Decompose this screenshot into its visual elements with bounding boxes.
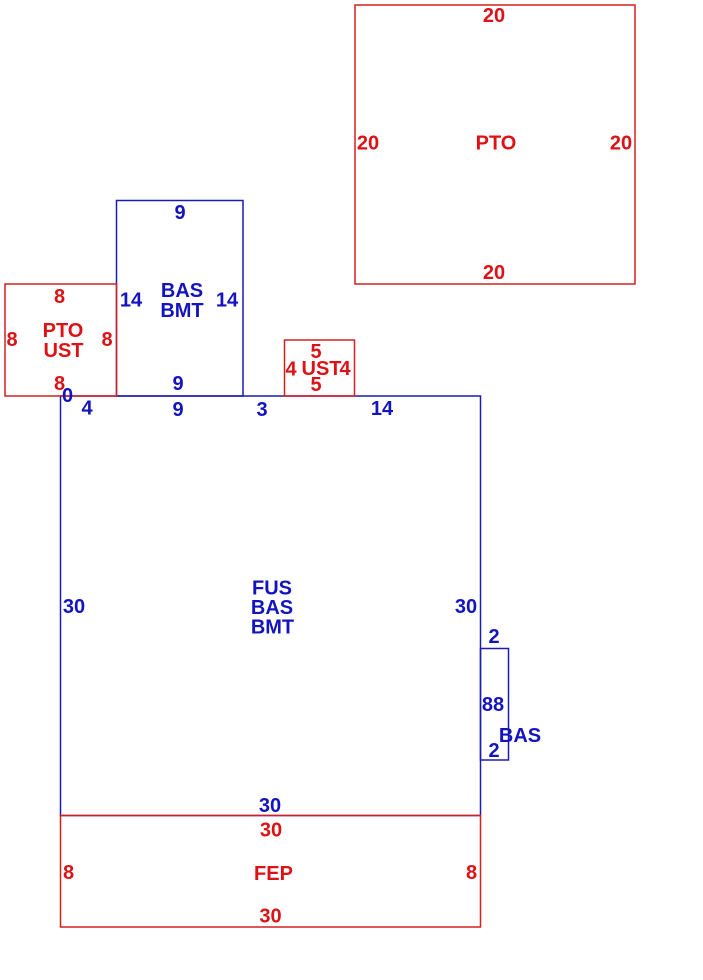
svg-text:9: 9 — [172, 373, 183, 395]
svg-text:8: 8 — [54, 286, 65, 308]
svg-text:BAS: BAS — [251, 597, 293, 619]
area FUS/BAS/BMT outline — [61, 396, 481, 816]
svg-text:30: 30 — [455, 596, 477, 618]
svg-text:9: 9 — [172, 399, 183, 421]
svg-text:30: 30 — [259, 905, 281, 927]
svg-text:30: 30 — [63, 596, 85, 618]
svg-text:14: 14 — [216, 289, 239, 311]
area PTO/UST outline — [5, 284, 117, 396]
svg-text:14: 14 — [371, 398, 394, 420]
svg-text:8: 8 — [6, 329, 17, 351]
svg-text:8: 8 — [63, 862, 74, 884]
svg-text:2: 2 — [488, 740, 499, 762]
svg-text:20: 20 — [357, 132, 379, 154]
svg-text:2: 2 — [488, 626, 499, 648]
svg-text:88: 88 — [482, 694, 504, 716]
area BAS (bump) outline — [481, 649, 509, 761]
svg-text:4: 4 — [339, 358, 351, 380]
svg-text:PTO: PTO — [43, 320, 84, 342]
area BAS/BMT outline — [117, 201, 244, 397]
svg-text:UST: UST — [44, 340, 84, 362]
area FEP outline — [61, 816, 481, 928]
svg-text:30: 30 — [259, 795, 281, 817]
svg-text:3: 3 — [256, 399, 267, 421]
svg-text:8: 8 — [466, 862, 477, 884]
svg-text:14: 14 — [120, 289, 143, 311]
svg-text:4: 4 — [285, 358, 297, 380]
svg-text:BAS: BAS — [499, 725, 541, 747]
svg-text:FEP: FEP — [254, 863, 293, 885]
svg-text:30: 30 — [260, 819, 282, 841]
svg-text:BMT: BMT — [251, 617, 294, 639]
svg-text:20: 20 — [483, 5, 505, 27]
svg-text:PTO: PTO — [476, 132, 517, 154]
svg-text:5: 5 — [310, 374, 321, 396]
svg-text:20: 20 — [610, 132, 632, 154]
svg-text:9: 9 — [174, 202, 185, 224]
area PTO outline — [355, 5, 635, 284]
svg-text:BMT: BMT — [160, 300, 203, 322]
svg-text:4: 4 — [81, 397, 93, 419]
svg-text:20: 20 — [483, 262, 505, 284]
svg-text:BAS: BAS — [161, 280, 203, 302]
area UST outline — [285, 340, 355, 396]
svg-text:8: 8 — [54, 373, 65, 395]
svg-text:8: 8 — [101, 329, 112, 351]
